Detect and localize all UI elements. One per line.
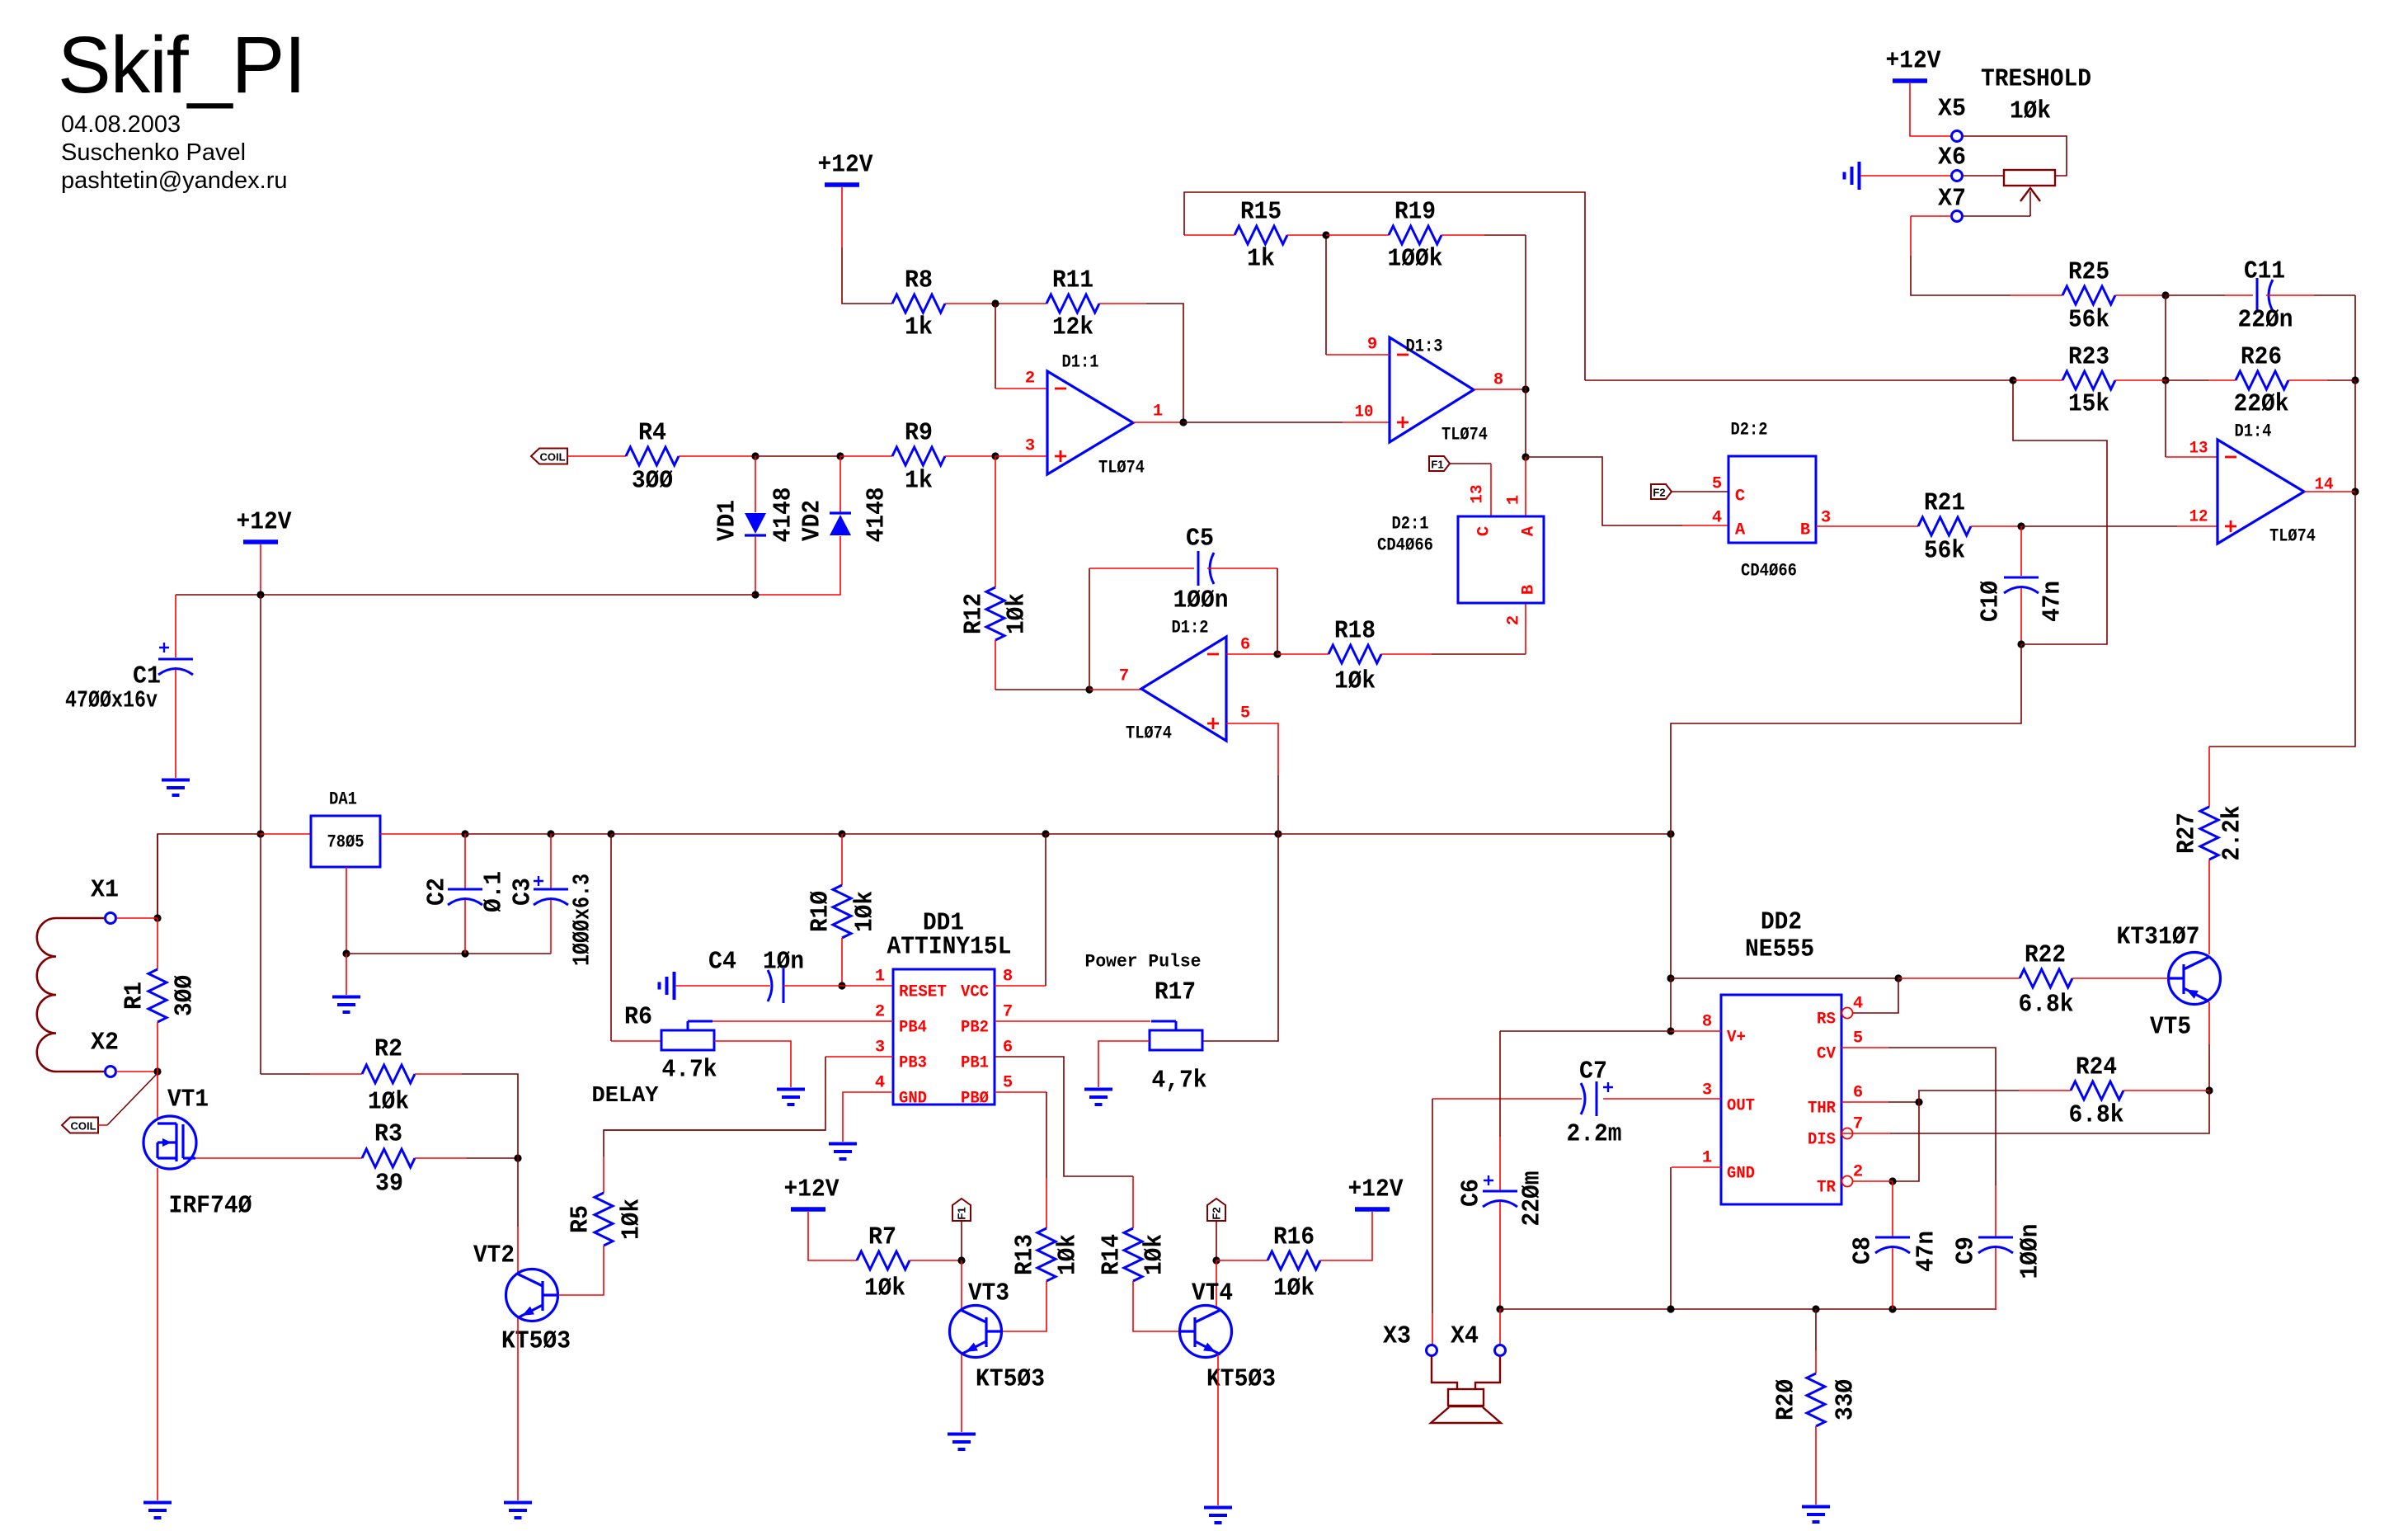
pin name THR [1808, 1100, 1837, 1119]
trimmer R17 4.7k [1150, 1021, 1202, 1050]
node C10 bottom [2017, 640, 2025, 648]
svg-text:1: 1 [875, 968, 885, 987]
svg-text:3: 3 [1702, 1081, 1712, 1100]
pin name C [1475, 526, 1494, 536]
svg-text:8: 8 [1702, 1013, 1712, 1032]
svg-text:2.2k: 2.2k [2218, 806, 2247, 861]
wire X7 to wiper [1963, 215, 2030, 217]
pin 7 label (DD1) [1003, 1003, 1013, 1022]
svg-text:56k: 56k [1924, 537, 1965, 566]
transistor VT4 KT503 [1180, 1306, 1232, 1358]
label C8 [1849, 1237, 1878, 1265]
svg-text:33Ø: 33Ø [1832, 1379, 1860, 1420]
pin 4 label (555) [1853, 995, 1863, 1014]
connector X5 [1938, 95, 1966, 142]
svg-text:PB3: PB3 [899, 1054, 927, 1073]
pin bubble TR [1842, 1176, 1853, 1187]
wire C10 to ref rail [1671, 644, 2021, 834]
node C2 top [461, 830, 468, 837]
capacitor C9 [1978, 1237, 2013, 1253]
wire ref rail down [1670, 834, 1672, 978]
svg-text:R8: R8 [905, 266, 933, 295]
wire X6 to pot left [1963, 175, 2004, 177]
svg-text:R27: R27 [2173, 813, 2202, 854]
pin 4 label (DD1) [875, 1074, 885, 1093]
node R25/C11 [2161, 291, 2169, 299]
svg-text:5: 5 [1003, 1074, 1013, 1093]
capacitor C11 [2238, 257, 2293, 335]
wire C3 top lead [550, 834, 552, 889]
pin name V+ [1727, 1029, 1746, 1048]
svg-text:X6: X6 [1938, 144, 1966, 172]
label KT503 VT4 [1206, 1365, 1276, 1394]
wire GND pin down [1670, 1167, 1672, 1309]
node RS/R22 [1894, 974, 1902, 982]
wire C1 bottom [175, 670, 176, 778]
connector X1 [91, 876, 119, 924]
svg-text:C7: C7 [1579, 1058, 1607, 1086]
svg-text:6.8k: 6.8k [2019, 991, 2074, 1020]
wire F2 flag down [1216, 1221, 1217, 1260]
wire D1:3 out [1474, 389, 1526, 390]
wire X4 top lead [1499, 1309, 1501, 1345]
wire R13 to VT3 base [1002, 1281, 1046, 1331]
svg-text:Skif_PI: Skif_PI [58, 20, 305, 110]
label DD1 [923, 909, 964, 938]
wire R3 to collector node [415, 1157, 518, 1159]
wire R18 to D2:1 B [1381, 603, 1526, 654]
svg-text:C4: C4 [708, 948, 736, 977]
potentiometer TRESHOLD 10k [2004, 170, 2055, 216]
wire node down R23 [2165, 295, 2166, 380]
net flag COIL (to VT1) [62, 1118, 98, 1133]
resistor R21 [1918, 489, 1971, 566]
op-amp D1:1 [1047, 352, 1145, 478]
svg-text:RS: RS [1817, 1010, 1836, 1029]
wire R24 left lead [2019, 1090, 2071, 1091]
ground R6 [777, 1090, 805, 1105]
node R22 rail [1667, 974, 1674, 982]
power +12V (R7) [784, 1175, 840, 1210]
wire C6 top lead [1499, 1031, 1501, 1190]
svg-text:+12V: +12V [818, 151, 873, 180]
node TR/C8 [1888, 1177, 1896, 1185]
wire R26 left lead [2166, 379, 2236, 381]
svg-text:1ØØn: 1ØØn [2016, 1224, 2045, 1279]
svg-text:2.2m: 2.2m [1567, 1120, 1622, 1149]
trimmer R6 4.7k [661, 1021, 714, 1050]
svg-text:1: 1 [1153, 403, 1163, 422]
svg-text:12k: 12k [1052, 313, 1093, 342]
wire C11 to out vert [2354, 295, 2356, 380]
pin name A [1520, 525, 1539, 536]
wire VT1 source to ground [157, 1168, 158, 1500]
svg-text:DD2: DD2 [1761, 908, 1802, 937]
pin 3 label (DD1) [875, 1039, 885, 1058]
svg-text:2: 2 [1025, 370, 1035, 389]
wire PB3 net to R5 [604, 1130, 825, 1193]
svg-text:15k: 15k [2068, 390, 2109, 419]
svg-text:5: 5 [1712, 475, 1722, 494]
power +12V (R8 feed) [818, 151, 873, 186]
speaker (to X3/X4) [1431, 1356, 1501, 1423]
svg-text:IRF74Ø: IRF74Ø [169, 1192, 252, 1221]
svg-text:+12V: +12V [784, 1175, 840, 1204]
label DELAY [592, 1084, 660, 1109]
node R9/R12/pin3 [991, 452, 999, 459]
net flag F1 (D2:1) [1429, 456, 1450, 471]
wire RS net [1853, 978, 1898, 1013]
label ATTINY15L [887, 933, 1012, 962]
ground DA1 [332, 997, 360, 1013]
pin name PB1 [961, 1054, 989, 1073]
resistor R26 [2234, 343, 2289, 419]
svg-text:PB2: PB2 [961, 1019, 989, 1038]
diode VD1 [713, 488, 798, 543]
svg-text:R6: R6 [624, 1003, 652, 1032]
resistor R8 [892, 266, 945, 342]
svg-text:KT31Ø7: KT31Ø7 [2117, 923, 2200, 952]
wire rail right end [1278, 833, 1671, 835]
resistor R16 [1267, 1223, 1320, 1303]
svg-text:8: 8 [1003, 968, 1013, 987]
wire R27 top lead [2208, 747, 2210, 807]
wire COIL diagonal [107, 1073, 158, 1125]
svg-text:47n: 47n [1912, 1231, 1941, 1272]
svg-text:Ø.1: Ø.1 [480, 871, 509, 912]
label 7805 [327, 832, 364, 853]
svg-text:7: 7 [1003, 1003, 1013, 1022]
svg-text:CV: CV [1817, 1045, 1837, 1064]
wire +12V bar down [260, 544, 261, 595]
svg-text:KT5Ø3: KT5Ø3 [501, 1327, 571, 1356]
svg-text:C1Ø: C1Ø [1977, 581, 2006, 622]
svg-text:VCC: VCC [961, 983, 989, 1002]
wire D2:2 B to R21 [1816, 525, 1918, 527]
node to D2:2 [1521, 453, 1529, 460]
wire rail down to R17 [1202, 834, 1278, 1041]
label VT2 [473, 1241, 515, 1270]
svg-text:C6: C6 [1457, 1179, 1486, 1207]
wire R16 to +12V [1320, 1212, 1372, 1260]
wire DA1 out [380, 833, 465, 835]
pin 3 label (555) [1702, 1081, 1712, 1100]
wire VT1 gate to R3 [195, 1157, 362, 1159]
wire rail R10-VCC [842, 833, 1046, 835]
pin name C (D2:2) [1735, 488, 1745, 506]
wire D2:2 A stub [1682, 525, 1728, 526]
wire D1:2 pin6 stub [1226, 653, 1277, 655]
capacitor C3 [534, 876, 568, 905]
power +12V (R16) [1348, 1175, 1404, 1210]
pin 8 label (555) [1702, 1013, 1712, 1032]
wire R4 to VD1 [679, 455, 755, 457]
label D2:2 [1731, 420, 1768, 440]
wire DIS net [1841, 1091, 2209, 1133]
value C6 220m [1518, 1171, 1547, 1227]
wire out down to R27 [2209, 492, 2355, 747]
wire pin13 stub [2166, 456, 2218, 458]
svg-text:2: 2 [875, 1003, 885, 1022]
value R17 4.7k [1152, 1067, 1207, 1095]
svg-text:56k: 56k [2068, 306, 2109, 335]
svg-text:22Øn: 22Øn [2238, 306, 2293, 335]
svg-text:TLØ74: TLØ74 [1126, 723, 1172, 744]
wire out down [1525, 389, 1526, 457]
svg-text:R14: R14 [1098, 1234, 1126, 1275]
svg-text:13: 13 [1469, 485, 1488, 504]
node D1:3 out [1521, 385, 1529, 393]
node V+ branch [1667, 1027, 1674, 1034]
wire C3 bottom lead [550, 900, 552, 954]
svg-text:78Ø5: 78Ø5 [327, 832, 364, 853]
IC DD2 NE555 box [1721, 995, 1841, 1204]
wire R1-X2 [157, 1022, 158, 1072]
node +12V/C1 [256, 591, 264, 598]
svg-text:GND: GND [1727, 1165, 1755, 1184]
svg-text:R2: R2 [374, 1035, 402, 1064]
svg-text:VD1: VD1 [713, 500, 742, 541]
transistor VT5 KT3107 [2169, 953, 2221, 1005]
value C3 1000x6.3 [569, 874, 596, 966]
wire X1 to node [116, 917, 158, 919]
pin name A (D2:2) [1735, 521, 1746, 540]
svg-text:TR: TR [1817, 1179, 1837, 1198]
pin 14 label [2315, 476, 2334, 495]
wire PB1 net [995, 1057, 1133, 1176]
wire node to D2:2 A pin [1526, 457, 1682, 525]
svg-text:3: 3 [1821, 509, 1831, 528]
wire pin9 net [1326, 235, 1390, 355]
svg-text:TLØ74: TLØ74 [1442, 425, 1488, 445]
node gnd row C8 [1888, 1305, 1896, 1312]
wire R15-R19 node to R19 [1326, 234, 1389, 236]
pin name PB0 [961, 1090, 989, 1109]
wire F1 flag down [961, 1221, 962, 1260]
op-amp D1:2 (left-pointing) [1126, 618, 1226, 744]
wire D1:4 out [2304, 491, 2355, 492]
wire C5 left vert [1089, 568, 1090, 690]
svg-text:1Øk: 1Øk [618, 1199, 647, 1240]
node R15/R19 [1322, 231, 1329, 238]
svg-text:4148: 4148 [769, 488, 798, 543]
svg-text:R7: R7 [868, 1223, 896, 1252]
svg-text:1: 1 [1505, 495, 1524, 505]
ground VT4 [1204, 1508, 1232, 1524]
wire C10 bottom lead [2020, 588, 2022, 644]
label C1 [133, 662, 161, 691]
label VT1 [167, 1086, 209, 1114]
svg-text:C: C [1735, 488, 1745, 506]
connector X3 [1383, 1322, 1437, 1356]
svg-text:TRESHOLD: TRESHOLD [1981, 65, 2091, 94]
label VT5 [2150, 1013, 2191, 1042]
resistor R10 [807, 885, 880, 938]
svg-text:Suschenko Pavel: Suschenko Pavel [61, 139, 246, 166]
pin 7 label [1119, 667, 1129, 686]
svg-text:X7: X7 [1938, 185, 1966, 214]
svg-text:R11: R11 [1052, 266, 1093, 295]
wire node to VT3 collector [961, 1260, 962, 1309]
pin 2 label (555) [1853, 1163, 1863, 1182]
svg-text:13: 13 [2189, 440, 2208, 459]
wire R2 feed [261, 1073, 362, 1075]
wire PB1 to R14 [1132, 1176, 1134, 1228]
resistor R2 [362, 1035, 415, 1117]
svg-text:F2: F2 [1211, 1207, 1223, 1219]
resistor R1 [120, 969, 200, 1022]
wire R14 to VT4 base [1133, 1281, 1180, 1331]
svg-text:R25: R25 [2068, 258, 2109, 287]
svg-text:12: 12 [2189, 508, 2208, 527]
wire R9 to pin3 node [945, 455, 995, 457]
wire R10 bottom lead [841, 938, 843, 986]
wire D1:2 pin5 to rail [1226, 723, 1278, 834]
svg-text:V+: V+ [1727, 1029, 1746, 1048]
wire VT4 emitter to ground [1217, 1354, 1219, 1505]
pin 9 label [1367, 336, 1377, 355]
wire THR to R24 row [1919, 1091, 2019, 1102]
wire gnd net to C3 [346, 953, 551, 954]
svg-text:ATTINY15L: ATTINY15L [887, 933, 1012, 962]
node R26 right [2351, 376, 2359, 384]
capacitor C7 [1567, 1058, 1622, 1149]
resistor R3 [362, 1120, 415, 1199]
wire RESET stub [842, 985, 893, 987]
pin 2 label (D2:1) [1505, 615, 1524, 625]
svg-text:X2: X2 [91, 1029, 119, 1058]
wire X6 ground lead [1860, 175, 1951, 177]
svg-text:VD2: VD2 [798, 500, 827, 541]
ground R20 [1802, 1507, 1830, 1523]
pin name PB4 [899, 1019, 927, 1038]
svg-text:X3: X3 [1383, 1322, 1411, 1351]
svg-text:R12: R12 [960, 593, 989, 634]
svg-text:2: 2 [1505, 615, 1524, 625]
pin 12 label [2189, 508, 2208, 527]
IC DA1 box [311, 816, 380, 867]
wire R12 to pin7 node [995, 640, 1089, 690]
svg-text:3ØØ: 3ØØ [171, 975, 200, 1016]
wire R10 top lead [841, 834, 843, 885]
wire F2 to C pin [1672, 491, 1728, 492]
label R17 [1155, 978, 1196, 1007]
wire VD2 cathode top [840, 456, 841, 513]
wire VD1 cathode [755, 536, 756, 595]
pin bubble RS [1842, 1008, 1853, 1019]
wire +12V to X5 [1910, 83, 1951, 136]
svg-text:R18: R18 [1334, 617, 1376, 646]
wire feedback R19 vert [1525, 235, 1526, 389]
value C2 0.1 [480, 871, 509, 912]
svg-text:22Øk: 22Øk [2234, 390, 2289, 419]
svg-text:KT5Ø3: KT5Ø3 [976, 1365, 1045, 1394]
ground X6 [1845, 162, 1860, 190]
wire PB0 net [995, 1092, 1046, 1228]
ground DD1 [829, 1144, 857, 1160]
svg-text:+12V: +12V [1886, 47, 1941, 76]
wire node to D1:4 pin12 [2021, 525, 2218, 527]
wire C10 top lead [2020, 526, 2022, 576]
IC DD1 ATTINY15L box [893, 969, 995, 1105]
svg-text:VT3: VT3 [968, 1279, 1009, 1308]
wire +12V to R8 [842, 187, 892, 304]
wire VD1 anode [755, 456, 756, 512]
title email [61, 167, 288, 194]
label CD4066 (D2:2) [1741, 561, 1797, 582]
wire DA1 gnd pin [346, 867, 347, 954]
wire DA1 gnd stem [346, 954, 347, 995]
svg-text:DA1: DA1 [329, 789, 357, 810]
capacitor C10 [2004, 577, 2039, 593]
wire COIL flag lead [98, 1124, 107, 1126]
svg-text:R24: R24 [2076, 1053, 2117, 1082]
node R8/R11/pin2 junction [991, 299, 999, 307]
label CD4066 (D2:1) [1377, 535, 1433, 556]
wire R15 right [1287, 234, 1326, 236]
power +12V (treshold) [1886, 47, 1941, 82]
ground C1 [162, 780, 190, 796]
node F1/VT3 [957, 1256, 965, 1264]
wire +12V down to R2 [260, 834, 261, 1074]
op-amp D1:3 [1390, 337, 1488, 445]
ground VT3 [948, 1434, 976, 1450]
wire R23 row left [1585, 379, 2013, 381]
node R23 left [2009, 376, 2016, 384]
wire VT5 emitter down [2208, 1002, 2210, 1091]
svg-text:R9: R9 [905, 419, 933, 448]
svg-text:D2:1: D2:1 [1392, 514, 1429, 535]
node diode bottom rail [751, 591, 759, 598]
pin name RS [1817, 1010, 1836, 1029]
wire THR down to TR [1893, 1102, 1919, 1181]
svg-text:R2Ø: R2Ø [1772, 1379, 1801, 1420]
pin name OUT [1727, 1097, 1755, 1116]
node D1:4 out [2351, 488, 2359, 495]
wire C5 left lead [1089, 568, 1194, 569]
svg-text:4,7k: 4,7k [1152, 1067, 1207, 1095]
title date [61, 111, 181, 138]
wire rail C2-C3 [465, 833, 551, 835]
wire X7 left down to R25 [1911, 216, 2062, 295]
power +12V (main) [237, 508, 292, 543]
pin 5 label (555) [1853, 1029, 1863, 1048]
svg-text:KT5Ø3: KT5Ø3 [1206, 1365, 1276, 1394]
pin 3 label [1025, 437, 1035, 456]
svg-text:4: 4 [1712, 509, 1722, 528]
svg-text:R23: R23 [2068, 343, 2109, 372]
net flag F2 (D2:2) [1651, 484, 1672, 499]
pin name RESET [899, 983, 947, 1002]
svg-text:A: A [1520, 525, 1539, 536]
label C10 [1977, 581, 2006, 622]
svg-text:39: 39 [375, 1170, 403, 1199]
wire R7 to F1 node [910, 1260, 962, 1261]
net flag F1 (VT3) [952, 1199, 971, 1221]
svg-text:VT1: VT1 [167, 1086, 209, 1114]
svg-text:F1: F1 [1431, 459, 1443, 471]
svg-text:1k: 1k [905, 467, 933, 496]
pin 5 label (DD1) [1003, 1074, 1013, 1093]
wire rail C3-R6 [551, 833, 611, 835]
svg-text:1Øk: 1Øk [1003, 593, 1032, 634]
node X1 [153, 914, 161, 921]
svg-text:6: 6 [1853, 1084, 1863, 1103]
pin 6 label (DD1) [1003, 1039, 1013, 1058]
node R18/pin6 [1273, 650, 1281, 657]
svg-text:04.08.2003: 04.08.2003 [61, 111, 181, 138]
wire THR net [1841, 1101, 1919, 1103]
